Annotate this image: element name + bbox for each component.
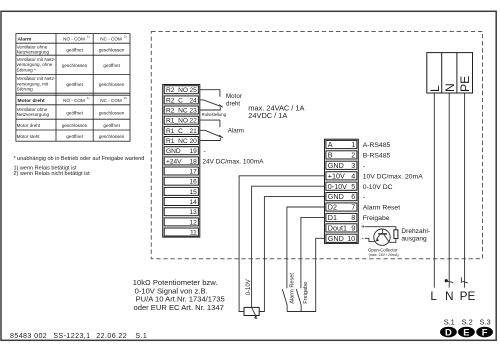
svg-text:geschlossen: geschlossen [99, 134, 125, 139]
wire N [448, 93, 450, 288]
svg-text:23: 23 [189, 107, 197, 114]
svg-text:1): 1) [87, 96, 90, 100]
svg-text:GND: GND [328, 192, 344, 201]
svg-text:11: 11 [190, 229, 197, 236]
marker F [476, 326, 493, 337]
note potentiometer source [133, 278, 225, 312]
svg-text:+10V: +10V [328, 171, 345, 180]
transistor open collector [374, 229, 390, 245]
svg-text:24VDC / 1A: 24VDC / 1A [248, 111, 287, 120]
svg-text:GND: GND [166, 148, 181, 155]
svg-text:18: 18 [189, 158, 197, 165]
svg-text:geöffnet: geöffnet [103, 123, 120, 128]
svg-text:S.2: S.2 [462, 317, 473, 326]
svg-text:0-10V: 0-10V [328, 182, 347, 191]
labels L N PE [430, 289, 475, 303]
svg-text:Alarm Reset: Alarm Reset [363, 205, 401, 212]
svg-text:geöffnet: geöffnet [66, 82, 83, 87]
svg-text:Motor steht: Motor steht [17, 134, 41, 139]
svg-text:NO - COM: NO - COM [63, 98, 85, 103]
title block text [10, 332, 147, 340]
svg-text:NC - COM: NC - COM [100, 36, 122, 41]
svg-text:ausgang: ausgang [401, 235, 427, 242]
svg-text:Alarm: Alarm [228, 128, 244, 135]
svg-text:L: L [430, 289, 437, 303]
wire GND10 to switch common [287, 238, 324, 311]
device outline (dashed enclosure) [151, 32, 482, 259]
svg-text:dreht: dreht [226, 100, 240, 107]
svg-text:0-10V: 0-10V [246, 279, 252, 295]
svg-text:24: 24 [189, 97, 197, 104]
labels right of terminal block [363, 142, 424, 222]
svg-text:Freigabe: Freigabe [303, 282, 309, 304]
wire D1 to Freigabe switch [301, 217, 325, 288]
svg-text:Störung *: Störung * [17, 67, 36, 72]
switch Alarm Reset [282, 289, 287, 312]
svg-text:Motor: Motor [226, 93, 242, 100]
svg-text:Alarm: Alarm [18, 36, 33, 42]
svg-text:geöffnet: geöffnet [66, 47, 83, 52]
svg-text:4: 4 [351, 171, 355, 180]
svg-text:R2_C: R2_C [166, 97, 183, 104]
svg-text:0-10V DC: 0-10V DC [363, 184, 393, 191]
svg-text:geöffnet: geöffnet [103, 63, 120, 68]
svg-text:17: 17 [189, 168, 197, 175]
potentiometer 10k [244, 307, 259, 319]
svg-text:10V DC/max. 20mA: 10V DC/max. 20mA [363, 173, 424, 180]
svg-text:PE: PE [458, 76, 472, 92]
svg-text:20: 20 [189, 138, 197, 145]
svg-text:F: F [482, 326, 488, 337]
relay contact R2 (Motor dreht) [200, 90, 223, 110]
switch Freigabe [296, 289, 301, 312]
svg-text:2): 2) [124, 35, 127, 39]
svg-text:* unabhängig ob in Betrieb ode: * unabhängig ob in Betrieb oder auf Frei… [14, 156, 145, 162]
svg-text:S.1: S.1 [135, 332, 147, 340]
svg-text:L: L [428, 85, 442, 92]
svg-text:-: - [363, 163, 365, 170]
wire D2 to Alarm Reset switch [287, 207, 325, 288]
svg-text:D1: D1 [328, 213, 337, 222]
terminal block right (terminals 1..10) [325, 139, 359, 243]
svg-text:-: - [204, 148, 206, 155]
footnotes [14, 156, 145, 177]
svg-text:R1_C: R1_C [166, 128, 183, 135]
svg-text:NC - COM: NC - COM [100, 98, 122, 103]
svg-text:15: 15 [189, 189, 197, 196]
section refs S.1 S.2 S.3 [444, 317, 491, 326]
svg-text:+: + [361, 224, 365, 231]
svg-text:7: 7 [351, 203, 355, 212]
wire +10V to potentiometer [239, 176, 324, 312]
svg-text:Netzversorgung: Netzversorgung [17, 112, 50, 117]
svg-text:5: 5 [351, 182, 355, 191]
svg-text:2: 2 [351, 151, 355, 160]
connector mark on N [445, 279, 454, 283]
svg-text:24V DC/max. 100mA: 24V DC/max. 100mA [202, 158, 264, 165]
svg-text:6: 6 [351, 192, 355, 201]
svg-text:NO - COM: NO - COM [63, 36, 85, 41]
svg-text:R2_NO: R2_NO [166, 87, 188, 94]
wire 0-10V to wiper [252, 186, 325, 307]
svg-text:N: N [443, 83, 457, 92]
svg-text:19: 19 [189, 148, 197, 155]
svg-text:Drehzahl-: Drehzahl- [401, 228, 430, 235]
relay contact state table [16, 34, 130, 142]
svg-text:oder EUR EC Art. Nr. 1347: oder EUR EC Art. Nr. 1347 [134, 303, 224, 312]
svg-text:25: 25 [189, 87, 197, 94]
svg-text:2): 2) [124, 96, 127, 100]
svg-text:1): 1) [87, 35, 90, 39]
svg-text:Motor dreht: Motor dreht [17, 123, 41, 128]
svg-text:13: 13 [189, 209, 197, 216]
svg-text:Alarm Reset: Alarm Reset [289, 273, 295, 304]
svg-text:R1_NO: R1_NO [166, 118, 188, 125]
svg-text:-: - [363, 194, 365, 201]
mains terminal block L N PE [427, 53, 473, 93]
svg-text:geschlossen: geschlossen [99, 82, 125, 87]
svg-text:Open-Collector: Open-Collector [368, 247, 398, 252]
svg-text:2) wenn Relais nicht betätigt: 2) wenn Relais nicht betätigt ist [14, 171, 91, 177]
svg-text:21: 21 [189, 128, 197, 135]
svg-text:9: 9 [351, 224, 355, 233]
svg-text:22.06.22: 22.06.22 [96, 332, 127, 340]
svg-text:A-RS485: A-RS485 [363, 142, 391, 149]
svg-text:S.1: S.1 [444, 317, 455, 326]
resistor (load) [394, 230, 398, 239]
connector mark on PE [461, 277, 468, 283]
svg-text:B-RS485: B-RS485 [363, 153, 391, 160]
svg-text:Netzversorgung: Netzversorgung [17, 50, 50, 55]
svg-text:GND: GND [328, 161, 344, 170]
svg-text:R1_NC: R1_NC [166, 138, 188, 145]
svg-text:geöffnet: geöffnet [66, 110, 83, 115]
svg-text:8: 8 [351, 213, 355, 222]
svg-text:16: 16 [189, 179, 197, 186]
svg-text:R2_NC: R2_NC [166, 107, 188, 114]
svg-text:Dout1: Dout1 [328, 224, 347, 233]
svg-text:Freigabe: Freigabe [363, 215, 390, 222]
svg-text:A: A [328, 140, 333, 149]
svg-text:+24V: +24V [166, 158, 182, 165]
svg-text:3: 3 [351, 161, 355, 170]
svg-text:14: 14 [189, 199, 197, 206]
svg-text:Störung: Störung [17, 87, 34, 92]
svg-text:SS-1223,1: SS-1223,1 [53, 332, 90, 340]
marker E [458, 326, 475, 337]
svg-text:geschlossen: geschlossen [99, 47, 125, 52]
relay contact R1 (Alarm) [200, 120, 223, 140]
svg-text:geschlossen: geschlossen [62, 123, 88, 128]
svg-text:22: 22 [189, 118, 197, 125]
svg-text:10: 10 [347, 234, 355, 243]
svg-text:E: E [463, 326, 469, 337]
svg-text:geöffnet: geöffnet [66, 134, 83, 139]
svg-text:Ruhestellung: Ruhestellung [202, 112, 227, 117]
svg-text:PE: PE [460, 289, 476, 303]
terminal block left (terminals 25..11) [163, 85, 200, 238]
svg-text:geschlossen: geschlossen [99, 110, 125, 115]
svg-text:Motor dreht: Motor dreht [18, 98, 46, 104]
svg-text:S.3: S.3 [480, 317, 491, 326]
svg-text:N: N [445, 289, 454, 303]
svg-text:(max. 24V / 20mA): (max. 24V / 20mA) [369, 253, 399, 257]
svg-text:1: 1 [351, 140, 355, 149]
marker D [440, 326, 457, 337]
svg-text:85483 002: 85483 002 [10, 332, 47, 340]
svg-text:12: 12 [189, 219, 197, 226]
svg-text:D2: D2 [328, 203, 337, 212]
svg-text:geschlossen: geschlossen [62, 63, 88, 68]
svg-text:B: B [328, 151, 333, 160]
svg-text:D: D [445, 326, 452, 337]
wire GND6 to potentiometer [259, 197, 324, 312]
wire PE [464, 93, 466, 288]
wire L [433, 93, 435, 288]
svg-text:GND: GND [328, 234, 344, 243]
